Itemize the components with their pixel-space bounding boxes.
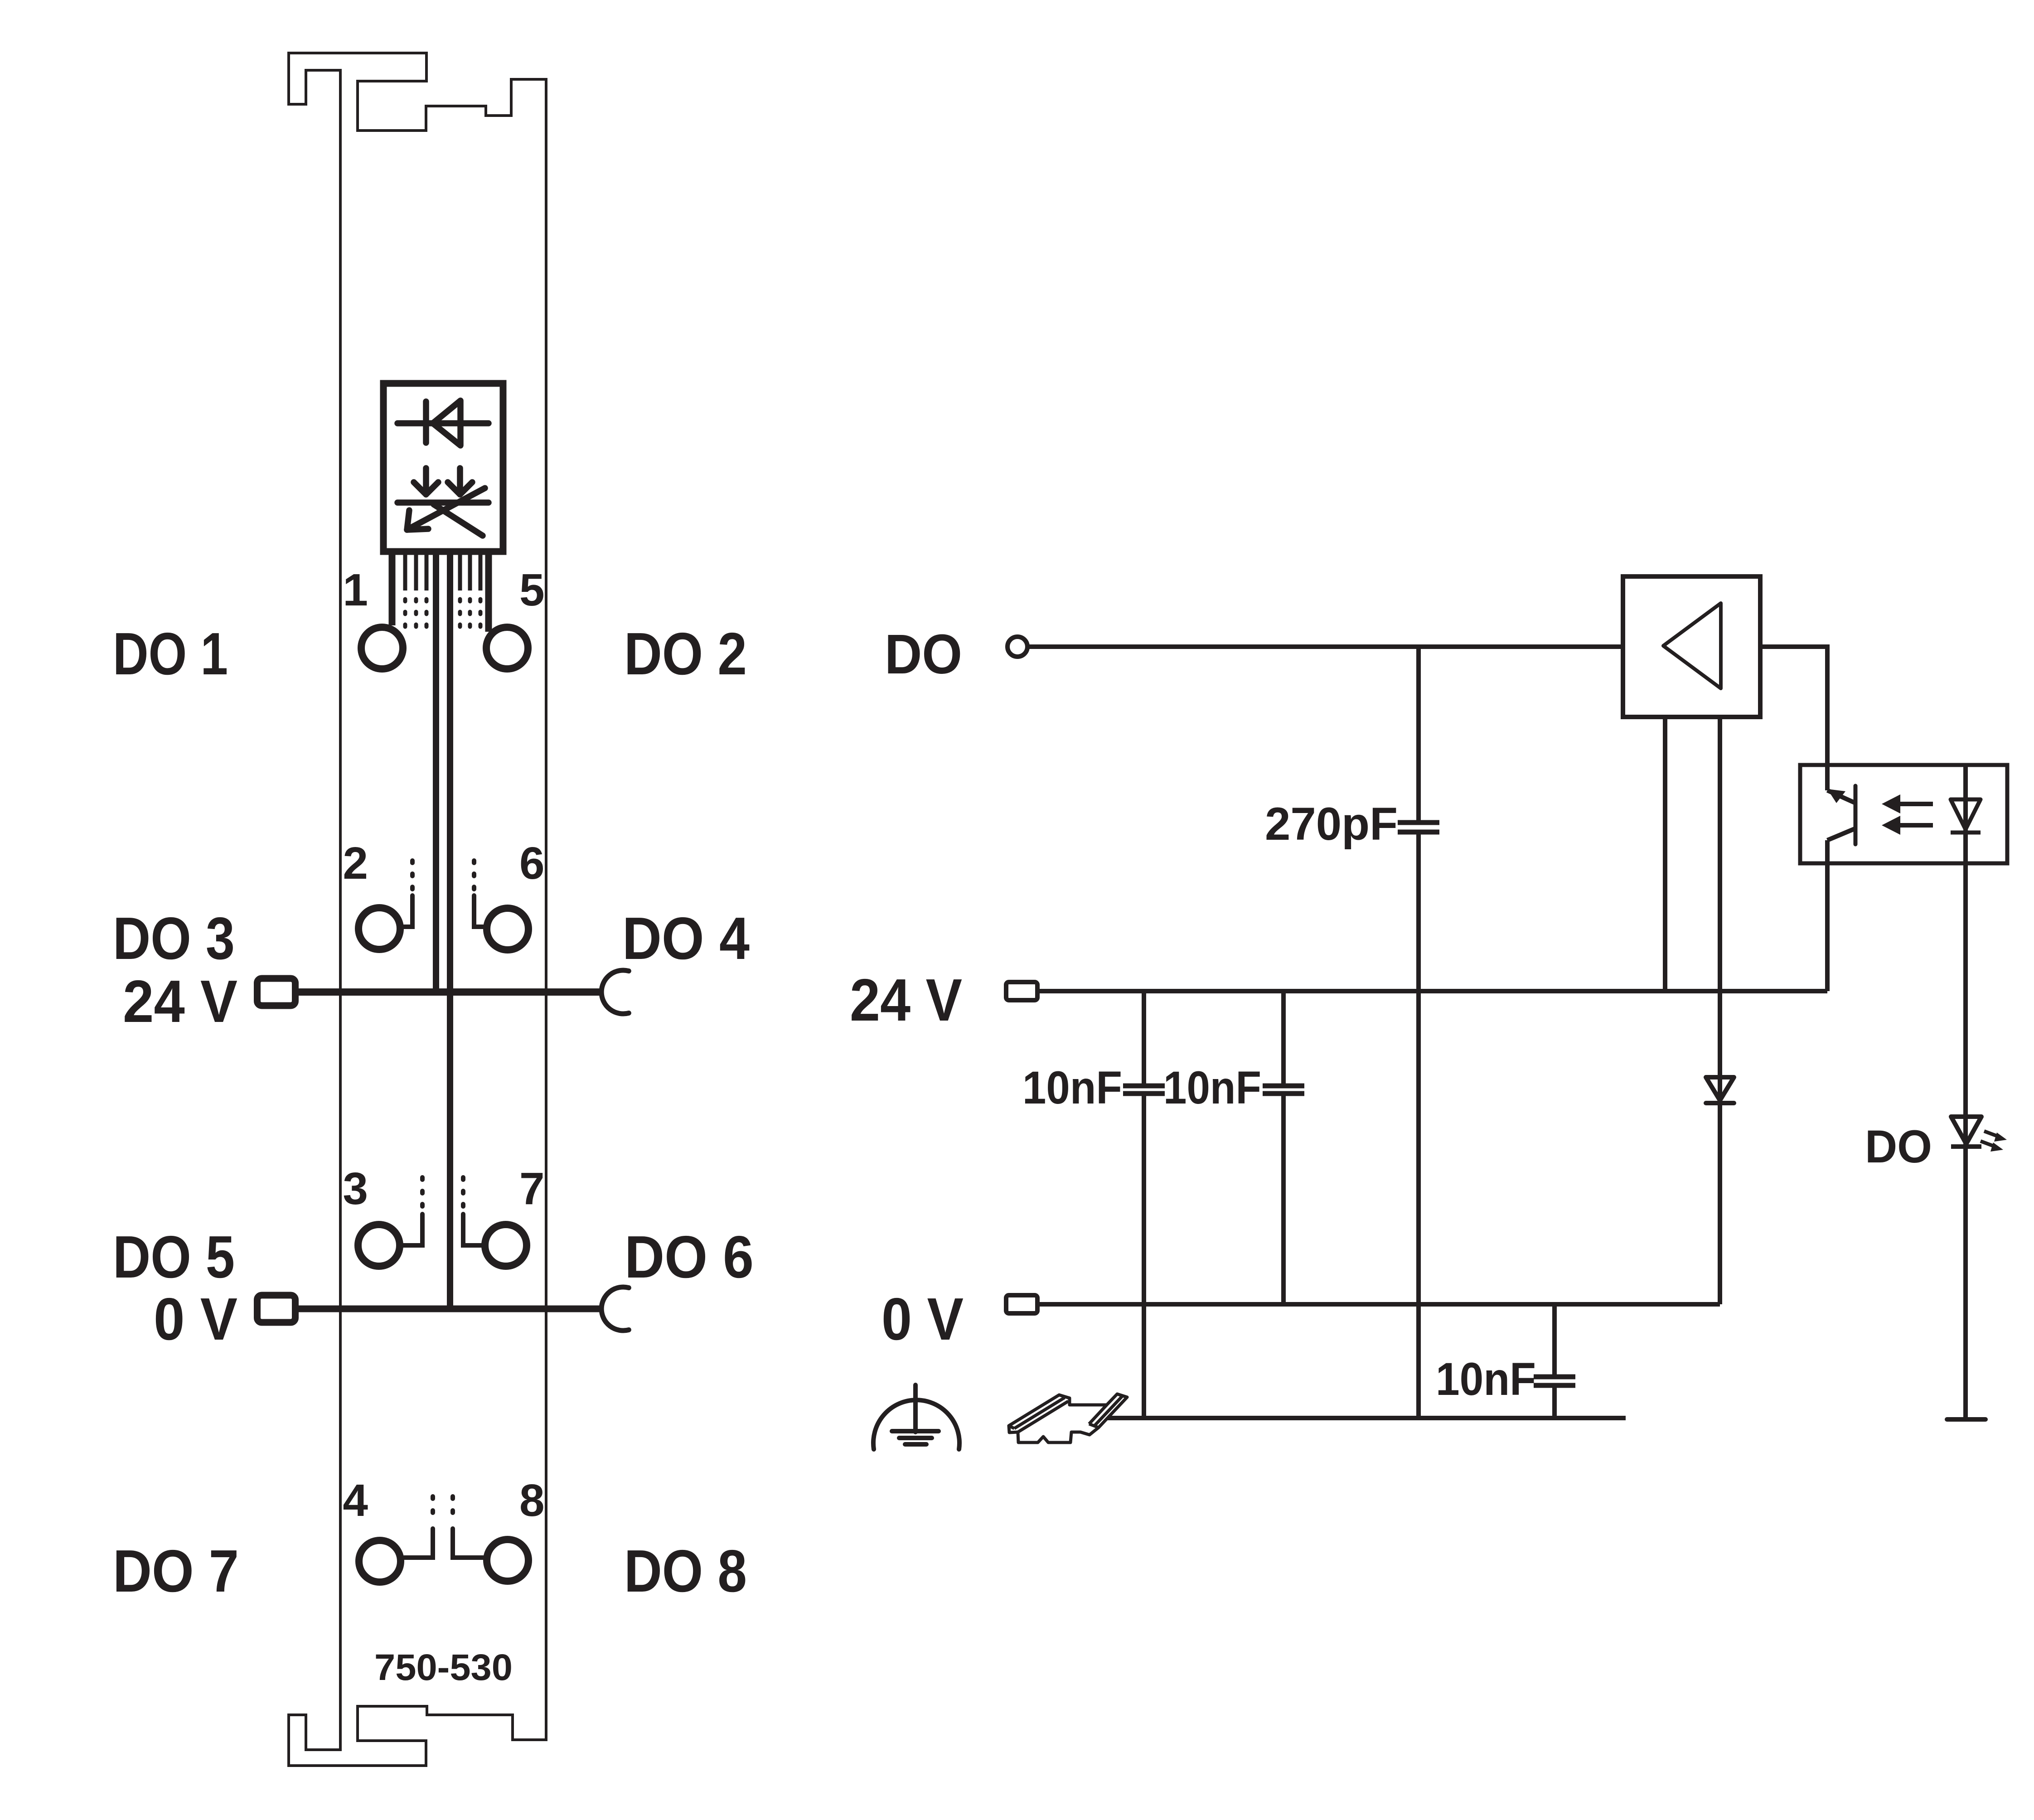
svg-text:DO 5: DO 5 xyxy=(113,1224,235,1290)
svg-text:DO 8: DO 8 xyxy=(624,1538,747,1604)
svg-text:DO 6: DO 6 xyxy=(625,1224,754,1290)
svg-text:DO 2: DO 2 xyxy=(624,620,747,687)
svg-text:10nF: 10nF xyxy=(1163,1062,1261,1113)
svg-text:24 V: 24 V xyxy=(123,968,237,1035)
svg-text:4: 4 xyxy=(343,1475,368,1526)
svg-text:DO: DO xyxy=(1865,1121,1932,1172)
svg-text:DO 7: DO 7 xyxy=(113,1538,239,1604)
svg-text:DO: DO xyxy=(885,624,962,686)
svg-text:7: 7 xyxy=(519,1163,545,1214)
svg-text:0 V: 0 V xyxy=(881,1286,964,1352)
svg-text:6: 6 xyxy=(519,838,545,889)
svg-text:5: 5 xyxy=(519,565,545,615)
svg-text:270pF: 270pF xyxy=(1265,798,1398,850)
svg-text:10nF: 10nF xyxy=(1436,1353,1536,1405)
svg-text:DO 3: DO 3 xyxy=(113,905,235,972)
svg-text:0 V: 0 V xyxy=(154,1286,237,1352)
svg-text:24 V: 24 V xyxy=(850,967,962,1033)
svg-text:DO 4: DO 4 xyxy=(622,905,750,972)
svg-text:3: 3 xyxy=(343,1163,368,1214)
svg-text:2: 2 xyxy=(343,838,368,889)
svg-text:1: 1 xyxy=(343,565,368,615)
svg-text:DO 1: DO 1 xyxy=(113,620,228,687)
svg-text:8: 8 xyxy=(519,1475,545,1526)
svg-text:750-530: 750-530 xyxy=(374,1647,513,1688)
svg-text:10nF: 10nF xyxy=(1022,1062,1122,1113)
